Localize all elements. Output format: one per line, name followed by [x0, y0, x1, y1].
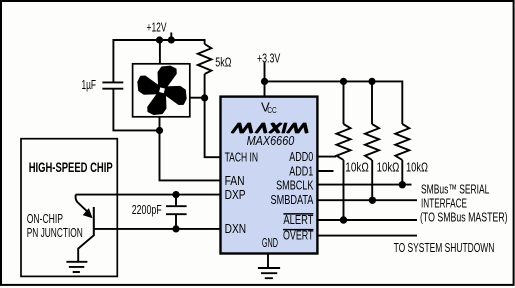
svg-text:MAX6660: MAX6660 [247, 134, 295, 148]
svg-text:2200pF: 2200pF [132, 202, 162, 217]
svg-text:TACH IN: TACH IN [225, 151, 259, 165]
svg-text:SMBus™ SERIAL: SMBus™ SERIAL [421, 181, 489, 196]
svg-text:FAN: FAN [225, 174, 245, 188]
svg-text:10kΩ: 10kΩ [377, 160, 400, 175]
svg-text:DXP: DXP [225, 188, 246, 202]
svg-text:DXN: DXN [225, 222, 247, 236]
svg-text:HIGH-SPEED CHIP: HIGH-SPEED CHIP [29, 159, 113, 175]
svg-text:ADD1: ADD1 [289, 164, 313, 178]
svg-text:(TO SMBus MASTER): (TO SMBus MASTER) [420, 210, 508, 225]
svg-text:ADD0: ADD0 [289, 150, 313, 164]
svg-text:INTERFACE: INTERFACE [421, 195, 467, 210]
svg-text:TO SYSTEM SHUTDOWN: TO SYSTEM SHUTDOWN [394, 240, 495, 255]
svg-text:1µF: 1µF [82, 77, 97, 92]
svg-text:10kΩ: 10kΩ [406, 160, 428, 175]
svg-text:OVERT: OVERT [283, 228, 314, 242]
svg-text:SMBDATA: SMBDATA [271, 193, 314, 207]
svg-text:ON-CHIP: ON-CHIP [27, 211, 63, 226]
svg-text:10kΩ: 10kΩ [345, 160, 369, 175]
svg-text:SMBCLK: SMBCLK [276, 178, 314, 192]
svg-text:PN JUNCTION: PN JUNCTION [27, 225, 83, 240]
svg-text:+12V: +12V [147, 20, 167, 35]
svg-text:GND: GND [262, 236, 278, 250]
svg-text:ALERT: ALERT [283, 213, 313, 227]
svg-text:5kΩ: 5kΩ [215, 54, 231, 69]
svg-text:CC: CC [267, 105, 277, 115]
svg-text:+3.3V: +3.3V [257, 50, 281, 65]
